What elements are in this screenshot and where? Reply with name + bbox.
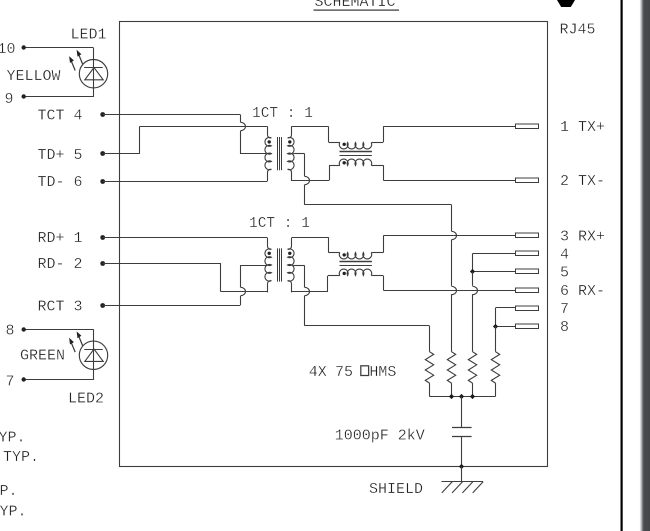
svg-text:YP.: YP. bbox=[0, 430, 26, 447]
svg-text:SCHEMATIC: SCHEMATIC bbox=[315, 0, 396, 11]
svg-text:1000pF 2kV: 1000pF 2kV bbox=[335, 427, 425, 444]
svg-text:YELLOW: YELLOW bbox=[7, 68, 61, 85]
svg-text:5: 5 bbox=[560, 265, 569, 282]
svg-text:LED1: LED1 bbox=[71, 27, 107, 44]
svg-text:1CT : 1: 1CT : 1 bbox=[252, 106, 313, 122]
svg-text:LED2: LED2 bbox=[68, 391, 104, 408]
svg-text:7: 7 bbox=[560, 301, 569, 318]
svg-text:3 RX+: 3 RX+ bbox=[560, 229, 605, 246]
svg-text:10: 10 bbox=[0, 41, 16, 58]
svg-text:9: 9 bbox=[5, 91, 14, 108]
svg-text:1 TX+: 1 TX+ bbox=[560, 119, 605, 136]
svg-text:4: 4 bbox=[560, 246, 569, 263]
svg-text:TYP.: TYP. bbox=[3, 449, 39, 466]
svg-text:8: 8 bbox=[6, 323, 15, 340]
svg-text:TD+ 5: TD+ 5 bbox=[38, 147, 83, 164]
svg-text:75: 75 bbox=[335, 364, 353, 381]
svg-text:RD+ 1: RD+ 1 bbox=[38, 230, 83, 247]
svg-text:4X: 4X bbox=[309, 364, 327, 381]
svg-text:SHIELD: SHIELD bbox=[369, 481, 423, 498]
svg-text:GREEN: GREEN bbox=[20, 348, 65, 365]
svg-text:HMS: HMS bbox=[369, 364, 396, 381]
svg-text:8: 8 bbox=[560, 319, 569, 336]
svg-text:YP.: YP. bbox=[0, 504, 27, 521]
svg-text:6 RX-: 6 RX- bbox=[560, 283, 605, 300]
svg-text:2 TX-: 2 TX- bbox=[560, 173, 605, 190]
svg-text:1CT : 1: 1CT : 1 bbox=[249, 216, 310, 232]
svg-text:7: 7 bbox=[6, 373, 15, 390]
svg-text:TCT 4: TCT 4 bbox=[38, 107, 83, 124]
svg-text:P.: P. bbox=[0, 483, 18, 500]
svg-text:RCT 3: RCT 3 bbox=[38, 298, 83, 315]
svg-text:RD- 2: RD- 2 bbox=[38, 256, 83, 273]
svg-text:TD- 6: TD- 6 bbox=[38, 174, 83, 191]
svg-text:RJ45: RJ45 bbox=[560, 22, 596, 39]
